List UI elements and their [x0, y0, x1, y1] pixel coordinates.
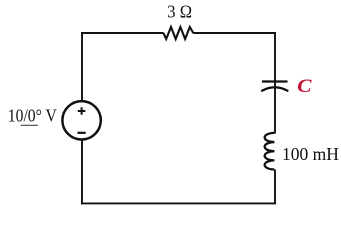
voltage source V1 circle — [62, 101, 100, 139]
svg-text:3 Ω: 3 Ω — [167, 2, 192, 22]
wire bottom horizontal — [81, 202, 276, 204]
wire top-left horizontal segment — [82, 32, 164, 34]
svg-text:10/0° V: 10/0° V — [8, 106, 57, 126]
voltage source plus sign — [78, 107, 86, 115]
voltage source minus sign — [78, 132, 86, 134]
label C (capacitor value) — [297, 76, 312, 97]
inductor L coil (4 loops) — [265, 133, 275, 170]
wire top-right horizontal segment — [193, 32, 276, 34]
capacitor C top plate — [262, 80, 288, 82]
wire left vertical above source — [81, 32, 83, 101]
label 10/0 deg V (source phasor value) — [8, 106, 57, 126]
label 3 ohm (resistor value) — [167, 2, 192, 22]
wire right vertical (through capacitor down to inductor) — [274, 32, 276, 134]
underline of angle notation — [21, 124, 38, 126]
resistor R (3 ohm) zigzag — [163, 27, 193, 39]
svg-text:100 mH: 100 mH — [282, 144, 339, 164]
wire right vertical below inductor — [274, 170, 276, 204]
capacitor C curved bottom plate — [262, 87, 288, 90]
svg-text:C: C — [297, 76, 312, 97]
wire left vertical below source — [81, 140, 83, 205]
